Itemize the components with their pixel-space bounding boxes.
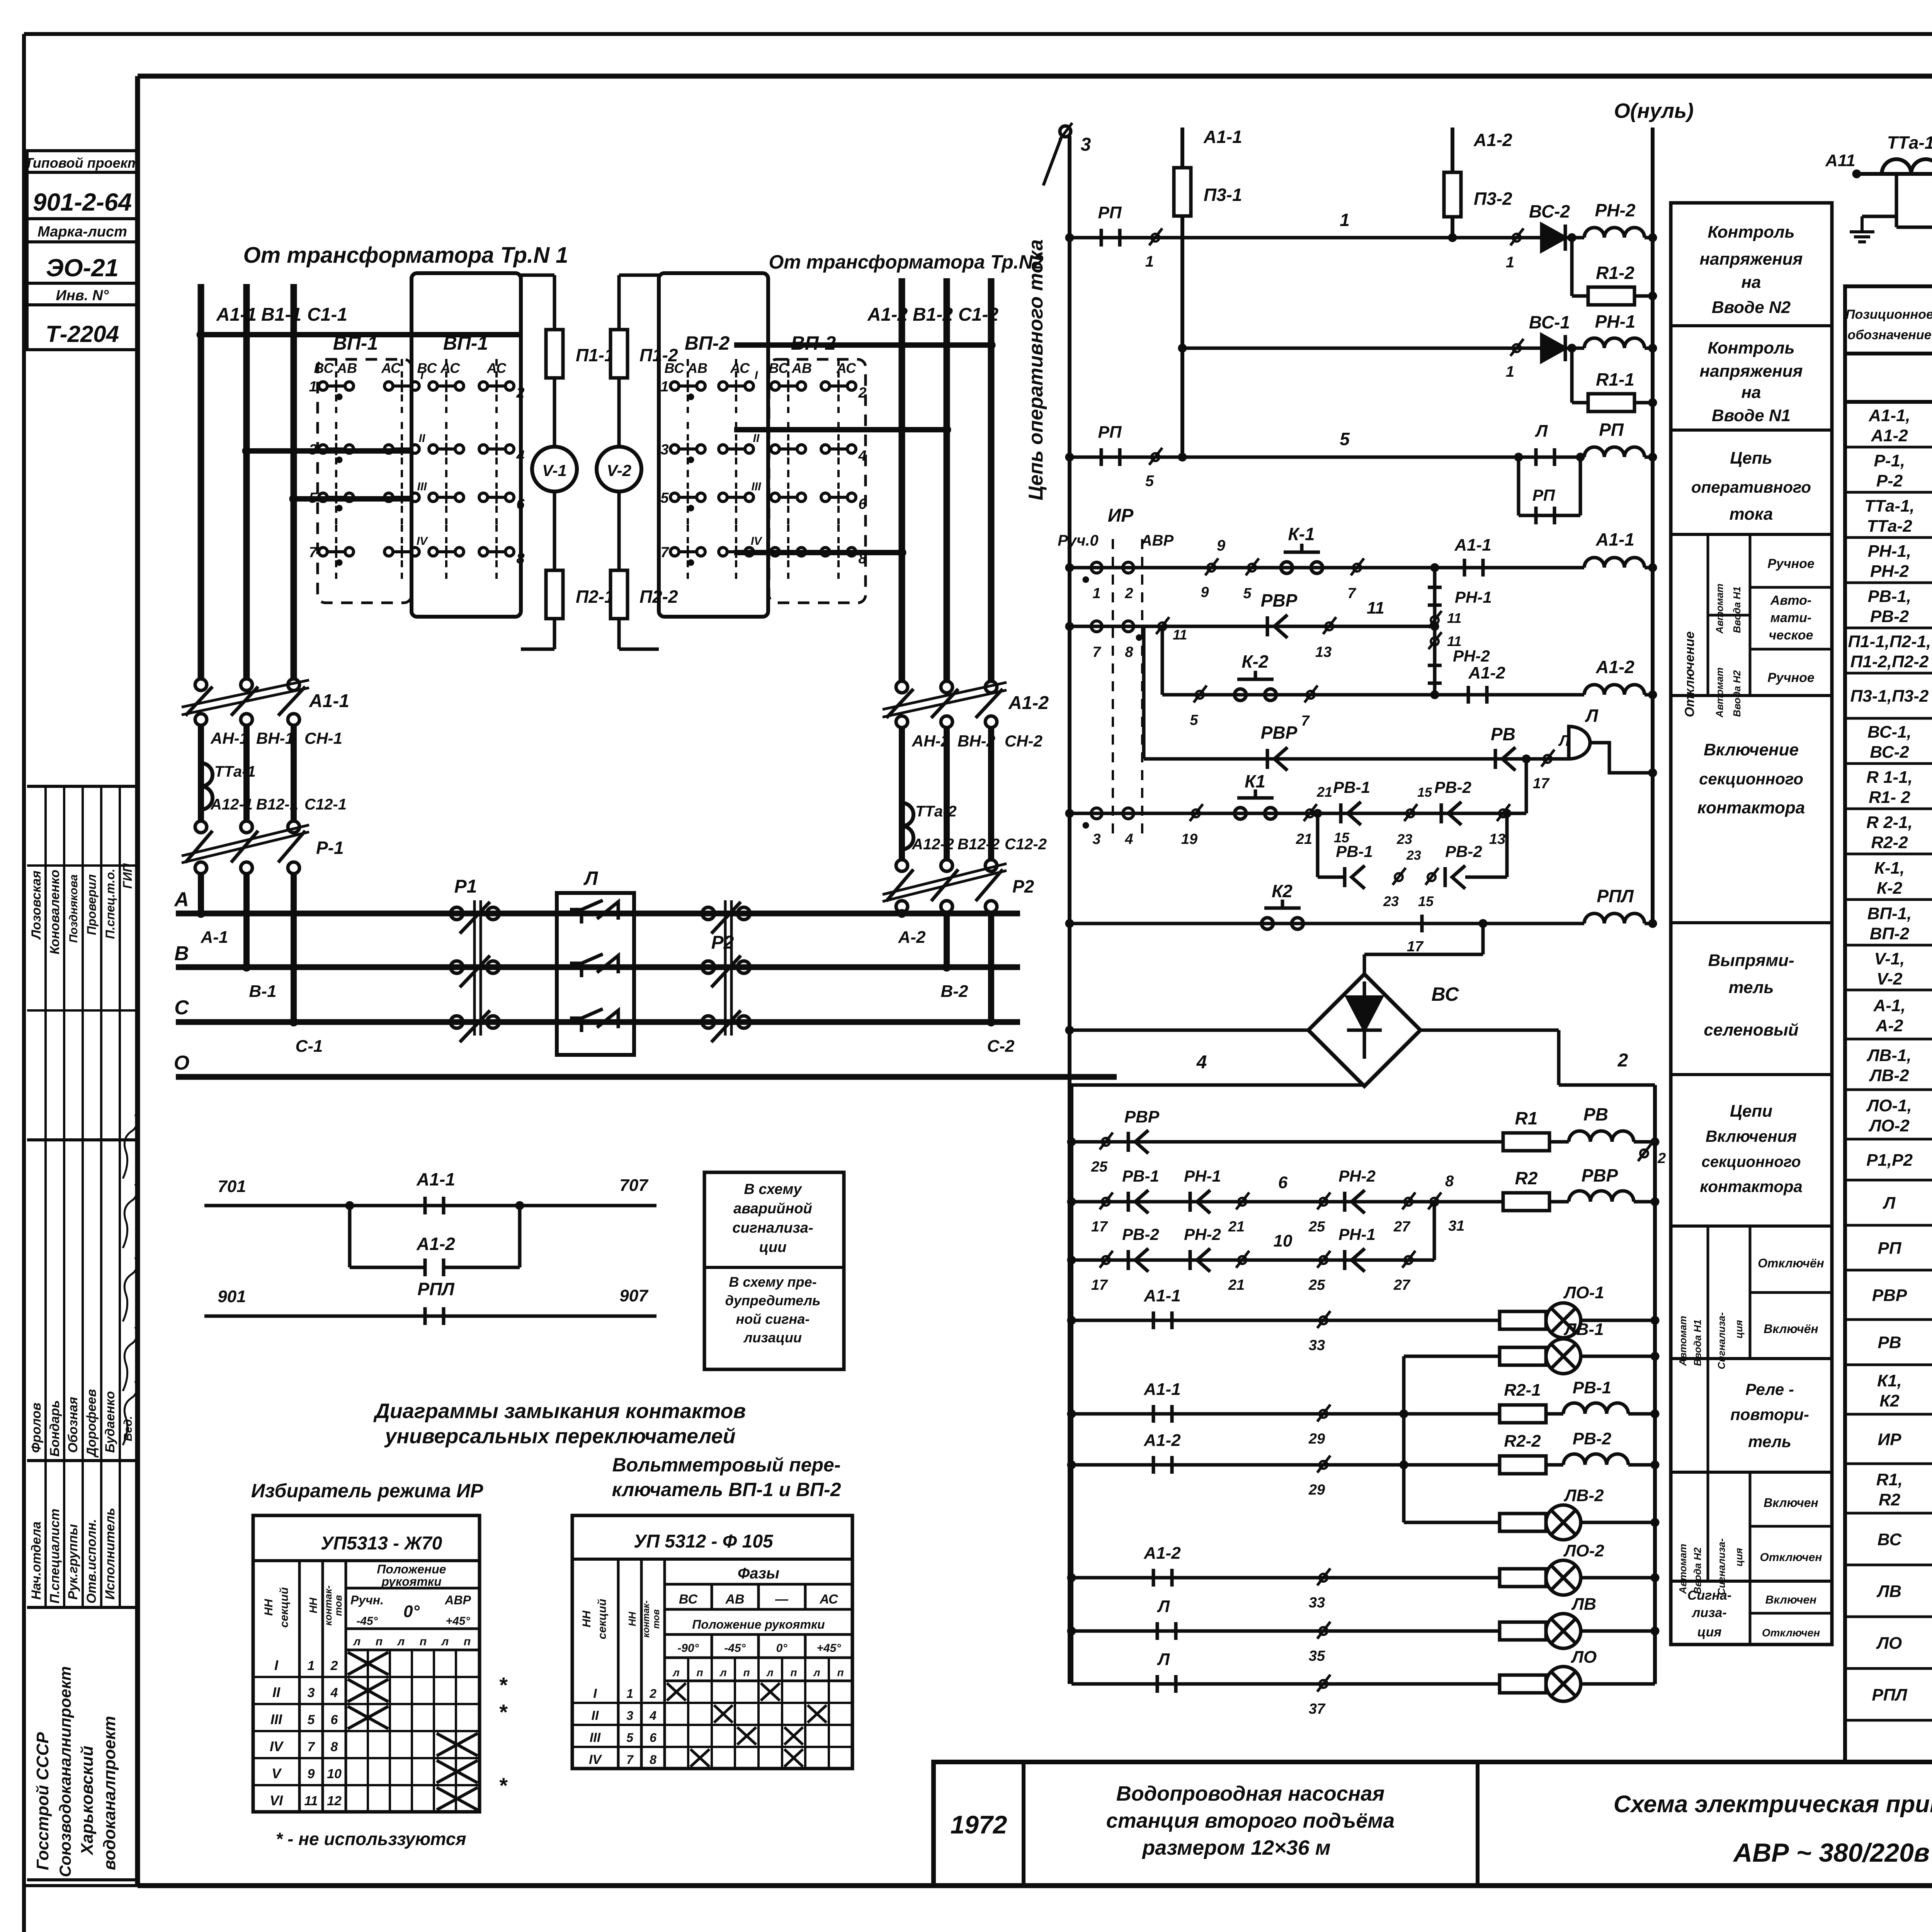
svg-text:С-2: С-2 (987, 1037, 1015, 1056)
svg-text:РН-2: РН-2 (1184, 1225, 1221, 1243)
CT ТТа-1 (201, 763, 213, 810)
VP1 contact row II col 3 (429, 445, 437, 453)
contact РВР rung (1127, 1132, 1130, 1152)
svg-text:5: 5 (626, 1731, 634, 1745)
svg-text:ИР: ИР (1108, 505, 1134, 526)
svg-text:От трансформатора Тр.N2: От трансформатора Тр.N2 (769, 251, 1043, 273)
contact Л r37 (1156, 1675, 1159, 1693)
slash 11 lower (1431, 638, 1439, 645)
svg-text:РВР: РВР (1261, 590, 1298, 611)
contact РН-1 r10 (1343, 1250, 1347, 1270)
parallel РП contact loop (1517, 457, 1520, 515)
svg-text:л: л (813, 1667, 820, 1679)
svg-text:на: на (1741, 273, 1761, 292)
svg-text:Инв. N°: Инв. N° (56, 287, 109, 304)
svg-text:Ручное: Ручное (1767, 670, 1815, 685)
svg-text:R1,: R1, (1876, 1470, 1903, 1489)
svg-text:п: п (743, 1667, 750, 1679)
svg-text:П2-2: П2-2 (639, 587, 678, 607)
svg-text:А1-1: А1-1 (416, 1169, 455, 1189)
svg-text:2: 2 (1124, 585, 1133, 602)
slash 11 upper (1431, 616, 1439, 624)
svg-text:901: 901 (218, 1287, 246, 1306)
table row line y=2328 (1845, 898, 1932, 901)
VP1 contact row II col 2 (384, 445, 393, 453)
components table outer box (1845, 286, 1932, 1762)
label block Автомат Ввода N1 Сигнализация (1707, 1226, 1709, 1359)
svg-text:АВ: АВ (791, 360, 812, 376)
svg-text:7: 7 (660, 544, 669, 561)
svg-text:В12-1: В12-1 (256, 796, 298, 813)
svg-text:2: 2 (330, 1658, 338, 1673)
svg-text:-45°: -45° (356, 1615, 378, 1628)
svg-text:R2-2: R2-2 (1504, 1432, 1541, 1451)
slash 25 r10 (1320, 1256, 1327, 1264)
title block outline (934, 1762, 1932, 1886)
svg-text:R1-2: R1-2 (1596, 263, 1634, 283)
svg-text:5: 5 (309, 490, 317, 506)
svg-text:Отключение: Отключение (1682, 631, 1697, 717)
svg-text:ВП-1: ВП-1 (443, 332, 488, 354)
components table group row line (1845, 400, 1932, 404)
svg-text:1: 1 (1092, 585, 1100, 602)
bus switch Р2 (702, 907, 714, 920)
table row line y=3532 (1845, 1364, 1932, 1366)
contact РН-2 r10 (1189, 1250, 1192, 1270)
vertical link to К-2 rung (1161, 626, 1164, 695)
УП5312 columns (617, 1559, 620, 1769)
svg-text:К1: К1 (1245, 771, 1265, 791)
wires switch Р2 to buses (899, 912, 905, 913)
svg-text:ТТа-2: ТТа-2 (915, 803, 957, 820)
label block Автомат Ввода N2 Сигнализация (1707, 1472, 1709, 1581)
table row line y=4184 (1845, 1616, 1932, 1618)
svg-text:размером 12×36 м: размером 12×36 м (1141, 1836, 1330, 1859)
svg-text:4: 4 (516, 448, 524, 464)
svg-text:R2: R2 (1879, 1490, 1901, 1509)
svg-text:П1-1: П1-1 (576, 345, 614, 365)
svg-text:Т-2204: Т-2204 (46, 321, 119, 347)
table row line y=3788 (1845, 1463, 1932, 1465)
svg-text:А11: А11 (1825, 151, 1855, 170)
svg-text:25: 25 (1308, 1277, 1325, 1293)
bus phase A to VP1 (201, 332, 519, 337)
table УП5312-Ф105 outer (572, 1515, 852, 1769)
wire rung ЛВ-2 (1404, 1521, 1546, 1524)
svg-text:Р1: Р1 (454, 876, 477, 897)
svg-text:ции: ции (759, 1239, 787, 1255)
svg-text:III: III (590, 1730, 601, 1745)
relay coil РВР bottom (1569, 1191, 1634, 1202)
svg-text:РН-1,: РН-1, (1868, 542, 1911, 561)
table row line y=2689 (1845, 1038, 1932, 1041)
fuse П1-1 (553, 322, 556, 386)
svg-text:Контроль: Контроль (1708, 223, 1794, 241)
svg-text:Цепь: Цепь (1730, 449, 1772, 468)
svg-text:Лозовская: Лозовская (29, 871, 44, 940)
table row line y=1625 (1845, 627, 1932, 629)
label column outer (1671, 203, 1832, 1645)
table row line y=3054 (1845, 1179, 1932, 1182)
wire bridge top corner link (1363, 954, 1366, 974)
svg-text:А12-1: А12-1 (210, 796, 253, 813)
contact РП rung1 (1100, 229, 1103, 247)
svg-text:В схему: В схему (744, 1181, 802, 1197)
bottom ladder left rail (1070, 1085, 1073, 1684)
CT ТТа-2 (902, 803, 913, 849)
svg-text:Типовой проект: Типовой проект (25, 155, 140, 171)
svg-text:Фазы: Фазы (738, 1565, 779, 1582)
bottom strip line (24, 1884, 138, 1887)
svg-text:С-1: С-1 (296, 1037, 323, 1056)
svg-text:III: III (270, 1711, 282, 1727)
svg-text:Отключен: Отключен (1762, 1627, 1820, 1639)
svg-text:К-1,: К-1, (1874, 859, 1905, 878)
svg-text:Авто-: Авто- (1770, 593, 1812, 608)
svg-text:л: л (353, 1635, 361, 1648)
svg-text:7: 7 (1347, 585, 1356, 602)
slash 29 r29b (1320, 1461, 1327, 1469)
contact А1-1 aux (423, 1197, 427, 1214)
svg-text:п: п (790, 1667, 797, 1679)
VP2 contact row I col 3 (771, 382, 779, 390)
svg-text:21: 21 (1316, 784, 1332, 800)
slash 9 (1207, 564, 1215, 571)
slash 29 r29 (1320, 1410, 1327, 1418)
svg-text:А1-1: А1-1 (1454, 536, 1491, 554)
svg-text:рукоятки: рукоятки (381, 1575, 441, 1588)
slash 17 r10 (1102, 1256, 1110, 1264)
svg-text:А1-1,: А1-1, (1868, 406, 1910, 425)
contact РВ hook (1494, 749, 1497, 769)
svg-text:25: 25 (1091, 1159, 1108, 1175)
svg-text:станция второго подъёма: станция второго подъёма (1106, 1809, 1395, 1832)
svg-text:секций: секций (596, 1599, 609, 1639)
svg-text:РВ: РВ (1878, 1333, 1901, 1352)
svg-text:А1-2: А1-2 (1595, 657, 1634, 677)
svg-text:В1-2: В1-2 (913, 304, 953, 325)
svg-text:А1-2: А1-2 (1468, 663, 1505, 682)
table row line y=1274 (1845, 491, 1932, 494)
svg-text:ЛВ-1,: ЛВ-1, (1866, 1046, 1911, 1065)
svg-text:напряжения: напряжения (1700, 250, 1803, 269)
contact Л parallel (1534, 448, 1538, 466)
svg-text:35: 35 (1309, 1648, 1325, 1664)
svg-text:I: I (420, 369, 424, 382)
svg-text:АВР ~ 380/220в: АВР ~ 380/220в (1733, 1838, 1930, 1867)
resistor lamp2 (1500, 1347, 1546, 1365)
svg-text:СН-2: СН-2 (1005, 732, 1043, 750)
bus VP2 to А1-2 (734, 550, 902, 555)
svg-text:А-2: А-2 (898, 928, 926, 947)
slash 7 rung К-1 (1353, 564, 1361, 571)
svg-text:РВ-1: РВ-1 (1336, 842, 1373, 861)
relay coil РВ-2 (1563, 1454, 1628, 1465)
svg-text:V-2: V-2 (607, 461, 631, 480)
svg-text:5: 5 (308, 1713, 315, 1727)
svg-text:ЭО-21: ЭО-21 (46, 254, 119, 282)
УП5312 лп row (665, 1656, 852, 1659)
wire rung РВР (1070, 625, 1435, 628)
VP1 contact row I col 1 (319, 382, 327, 390)
svg-text:секций: секций (278, 1587, 291, 1628)
wire rung 29 РВ-1 (1071, 1412, 1563, 1416)
slash 1 rung2 (1513, 344, 1520, 352)
wire rung К2 (1070, 922, 1584, 925)
contact РВ-1 branch (1343, 867, 1347, 887)
svg-text:тов: тов (651, 1609, 662, 1629)
ИР contacts 7-8 (1091, 621, 1102, 632)
svg-text:РВ: РВ (1583, 1104, 1608, 1124)
УП5313 header (253, 1559, 480, 1562)
selector ИР dashed columns (1112, 539, 1114, 835)
diode ВС-1 (1542, 335, 1565, 361)
svg-text:31: 31 (1448, 1218, 1464, 1234)
svg-text:В схему пре-: В схему пре- (729, 1274, 816, 1290)
fuse П3-1 (1181, 160, 1184, 224)
УП5312 header (572, 1558, 852, 1561)
main drawing frame (138, 74, 1932, 79)
svg-text:1: 1 (1340, 210, 1350, 230)
VP1 contact row II col 1 (319, 445, 327, 453)
svg-text:29: 29 (1308, 1482, 1325, 1498)
svg-text:707: 707 (619, 1176, 649, 1195)
VP2 contact row IV col 1 (670, 548, 679, 556)
svg-text:Обозная: Обозная (66, 1397, 80, 1453)
svg-text:С12-2: С12-2 (1005, 836, 1047, 853)
svg-text:на: на (1741, 383, 1761, 402)
svg-text:РВ-1,: РВ-1, (1868, 587, 1911, 606)
svg-text:ЛО-2: ЛО-2 (1563, 1541, 1604, 1560)
svg-text:НН: НН (580, 1610, 593, 1628)
svg-text:6: 6 (650, 1731, 656, 1745)
sub rail ЛВ (1402, 1356, 1406, 1522)
svg-text:7: 7 (309, 544, 318, 561)
svg-text:РВ-1: РВ-1 (1122, 1167, 1159, 1185)
parallel branch РВ-1 РВ-2 (1316, 813, 1320, 877)
contact РВ-2 branch (1444, 867, 1447, 887)
table row line y=3415 (1845, 1318, 1932, 1321)
svg-text:0°: 0° (403, 1602, 420, 1621)
svg-text:Автомат: Автомат (1677, 1316, 1689, 1366)
contact РП rung5 (1100, 448, 1103, 466)
slash 11 rung (1158, 622, 1166, 630)
svg-text:С: С (174, 997, 189, 1019)
svg-text:ция: ция (1733, 1320, 1745, 1338)
svg-text:6: 6 (331, 1713, 338, 1727)
contact А1-2 r29b (1152, 1456, 1155, 1474)
svg-text:РН-1: РН-1 (1184, 1167, 1221, 1185)
svg-text:А1-1: А1-1 (1595, 529, 1634, 549)
svg-text:ВС-2: ВС-2 (1870, 743, 1909, 762)
svg-text:8: 8 (650, 1753, 656, 1767)
svg-text:РН-2: РН-2 (1338, 1167, 1376, 1185)
wire rung РВ R1 (1071, 1140, 1569, 1144)
slash 21 r6 (1238, 1198, 1246, 1206)
svg-text:Р2: Р2 (711, 932, 734, 953)
svg-text:-90°: -90° (677, 1642, 699, 1655)
svg-text:Отключен: Отключен (1760, 1551, 1822, 1564)
svg-text:*: * (498, 1673, 508, 1697)
feeder В1-1 (243, 284, 250, 679)
table row line y=1742 (1845, 672, 1932, 675)
lamp ЛО-2 (1546, 1560, 1581, 1595)
svg-text:ВС: ВС (1878, 1530, 1902, 1549)
svg-text:О: О (174, 1052, 189, 1074)
contact РВР hook (1266, 616, 1269, 636)
bridge rectifier ВС (1308, 974, 1420, 1086)
svg-text:2: 2 (1617, 1050, 1628, 1071)
svg-text:П2-1: П2-1 (576, 587, 614, 607)
svg-text:О(нуль): О(нуль) (1614, 99, 1694, 122)
svg-text:РВ-1: РВ-1 (1573, 1378, 1611, 1397)
fuse П2-2 (617, 492, 621, 570)
svg-text:6: 6 (858, 496, 867, 512)
fuse П2-1 (553, 492, 556, 570)
resistor R2 (1503, 1193, 1549, 1211)
svg-text:П3-1,П3-2: П3-1,П3-2 (1850, 687, 1929, 706)
svg-text:ТТа-1: ТТа-1 (214, 763, 256, 780)
svg-text:Л: Л (583, 867, 599, 889)
svg-text:Р-1: Р-1 (316, 838, 344, 858)
svg-text:4: 4 (858, 448, 866, 464)
svg-text:29: 29 (1308, 1431, 1325, 1447)
svg-text:27: 27 (1393, 1219, 1411, 1235)
slash 2 right (1640, 1150, 1648, 1157)
Л contact pole (570, 1009, 618, 1032)
wire fuse П2-2 return (617, 619, 621, 649)
svg-text:12: 12 (327, 1794, 342, 1808)
VP2 contact row II col 4 (821, 445, 830, 453)
diode ВС-2 (1542, 224, 1565, 251)
voltmeter V-1 (553, 378, 556, 447)
contact А1-2 aux branch (348, 1206, 352, 1267)
svg-text:А-2: А-2 (1876, 1016, 1903, 1035)
resistor R1 (1503, 1133, 1549, 1151)
table row line y=4318 (1845, 1667, 1932, 1670)
svg-text:лиза-: лиза- (1691, 1605, 1727, 1620)
svg-text:Цепь оперативного тока: Цепь оперативного тока (1025, 239, 1047, 500)
slash Л 17 (1544, 755, 1551, 763)
svg-text:А1-1: А1-1 (216, 304, 257, 325)
ИР contacts 1-2 (1091, 562, 1102, 573)
svg-text:Отв.исполн.: Отв.исполн. (84, 1519, 99, 1604)
svg-text:+45°: +45° (817, 1642, 842, 1655)
svg-text:11: 11 (1367, 599, 1384, 617)
svg-text:РН-1: РН-1 (1338, 1225, 1376, 1243)
svg-text:9: 9 (1201, 584, 1209, 600)
ИР contacts 3-4 (1091, 808, 1102, 819)
slash 17 rung К2 (1420, 915, 1424, 932)
left margin box ЭО-21 (27, 242, 138, 283)
wire 4 top rail of bottom ladder (1071, 1083, 1364, 1087)
left margin box Инв. N (27, 283, 138, 305)
feeder А1-1 (198, 284, 204, 679)
VP2 contact row I col 4 (821, 382, 830, 390)
svg-text:НН: НН (307, 1597, 319, 1613)
svg-text:Р2: Р2 (1012, 876, 1034, 896)
contact РВ-1 r6 (1127, 1192, 1130, 1212)
svg-text:Автомат: Автомат (1714, 667, 1725, 718)
slash 15 branch (1428, 873, 1435, 881)
svg-text:К-1: К-1 (1288, 524, 1315, 544)
relay coil РП rung5 (1584, 447, 1645, 457)
УП5312 data grid (572, 1702, 852, 1704)
wire VP1 box to fuse П1-1 (521, 274, 554, 277)
svg-text:Союзводоканалнипроект: Союзводоканалнипроект (56, 1666, 74, 1877)
VP2 contact row III col 1 (670, 493, 679, 502)
button К-2 (1235, 689, 1246, 701)
svg-text:оперативного: оперативного (1691, 478, 1811, 496)
svg-text:3: 3 (660, 442, 668, 458)
svg-text:R 2-1,: R 2-1, (1866, 813, 1913, 832)
svg-text:17: 17 (1407, 939, 1424, 955)
svg-text:ВП-2: ВП-2 (1870, 924, 1910, 943)
svg-text:4: 4 (330, 1685, 338, 1700)
svg-text:К-2: К-2 (1242, 651, 1269, 672)
VP2 contact row III col 2 (719, 493, 727, 502)
svg-text:секционного: секционного (1701, 1153, 1801, 1170)
VP1 contact row III col 1 (319, 493, 327, 502)
svg-text:ВС: ВС (679, 1592, 698, 1607)
bus phase C to VP1 (294, 496, 413, 502)
wire fuse П1-2 to VP2 box (619, 274, 659, 277)
VP2 contact row III col 4 (821, 493, 830, 502)
wires switch Р-1 to buses (198, 874, 204, 913)
svg-text:Л: Л (1883, 1194, 1896, 1213)
wire fuse П2-1 return (553, 619, 556, 649)
svg-text:Р1,Р2: Р1,Р2 (1866, 1151, 1913, 1170)
wire rung 5 (1070, 456, 1584, 459)
svg-text:А12-2: А12-2 (912, 836, 954, 853)
slash 5 rung К-2 (1196, 691, 1204, 699)
svg-text:ЛО-1: ЛО-1 (1563, 1283, 1604, 1302)
VP1 contact row III col 4 (479, 493, 488, 502)
svg-text:—: — (775, 1592, 789, 1607)
note box signalization (704, 1172, 844, 1369)
svg-text:Сигнализа-: Сигнализа- (1716, 1538, 1727, 1595)
svg-text:ЛО: ЛО (1571, 1648, 1597, 1667)
svg-text:п: п (464, 1635, 471, 1648)
slash 31 (1430, 1198, 1438, 1206)
svg-text:К-2: К-2 (1877, 879, 1903, 898)
svg-text:ВС: ВС (1432, 983, 1459, 1005)
svg-text:1: 1 (1506, 363, 1514, 380)
button К-1 (1281, 562, 1293, 573)
svg-text:ВН-1: ВН-1 (256, 729, 294, 747)
VP1 contact row II col 4 (479, 445, 488, 453)
left margin box Марка-лист (27, 219, 138, 242)
svg-text:РВ-2: РВ-2 (1122, 1225, 1159, 1243)
fuse П3-2 (1451, 165, 1454, 224)
lamp ЛО-1 (1546, 1303, 1581, 1338)
svg-text:А1-2: А1-2 (867, 304, 908, 325)
VP2 contact row I col 1 (670, 382, 679, 390)
VP2 contact row III col 3 (771, 493, 779, 502)
svg-text:V-1,: V-1, (1874, 949, 1905, 968)
left margin box 901-2-64 (27, 172, 138, 219)
svg-text:А1-2: А1-2 (1871, 426, 1908, 445)
svg-text:Нач.отдела: Нач.отдела (29, 1522, 44, 1600)
line contactor Л box (557, 893, 634, 1055)
feeder В1-2 (944, 278, 950, 681)
svg-text:Ручное: Ручное (1767, 556, 1815, 571)
svg-text:В-2: В-2 (941, 982, 968, 1001)
CT circuit ТТа-1 (1857, 172, 1932, 176)
svg-text:А1-1: А1-1 (1143, 1286, 1180, 1305)
svg-text:V-2: V-2 (1877, 969, 1903, 988)
svg-text:л: л (672, 1667, 679, 1679)
